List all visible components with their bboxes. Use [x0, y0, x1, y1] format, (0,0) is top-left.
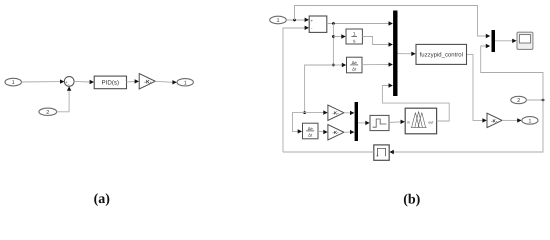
wire error reroute down-left branch (b): [305, 65, 334, 113]
gain2 -K- triangle (b): [328, 125, 344, 140]
arrowhead into outport 1 (b): [517, 118, 521, 122]
arrowhead into quantizer (b): [365, 121, 369, 125]
wire fuzzy sets output loop to mux1 input4 (b): [382, 86, 449, 122]
arrowhead into sum plus input (b): [305, 18, 309, 22]
svg-text:-K-: -K-: [332, 111, 339, 116]
arrowhead into gain1 (b): [323, 110, 327, 114]
node junction at In1 branch: [293, 19, 296, 22]
node junction error branch: [332, 22, 335, 25]
arrowhead into fuzzypid_control (b): [411, 52, 415, 56]
arrowhead into derivative lower (b): [298, 129, 302, 133]
arrowhead into integrator (b): [341, 34, 345, 38]
arrowhead into mux1 input2 (b): [389, 42, 393, 46]
derivative block lower de/dt (b): [303, 123, 319, 139]
arrowhead into derivative upper (b): [342, 63, 346, 67]
svg-text:2: 2: [46, 110, 49, 116]
node junction feedback net: [542, 99, 545, 102]
arrowhead into scope mux lower (b): [486, 44, 490, 48]
arrowhead into mux1 input1 (b): [389, 21, 393, 25]
inport oval 2 (a): [39, 108, 57, 116]
wire feedback into sum minus input (b): [283, 28, 305, 152]
arrowhead into lower mux in1 (b): [350, 111, 354, 115]
arrowhead into gain3 (b): [482, 118, 486, 122]
wire quantizer to fuzzy sets block (b): [389, 121, 401, 124]
wire error vertical branch (b): [332, 24, 334, 66]
inport oval 1 (b): [270, 16, 287, 24]
fuzzy membership in/out block (b): [405, 108, 436, 134]
wire lower mux to quantizer (b): [358, 122, 366, 124]
wire error line sum to mux1 first input (b): [327, 23, 389, 25]
derivative block upper de/dt (b): [347, 57, 363, 73]
gain1 -K- triangle (b): [328, 105, 344, 120]
svg-text:2: 2: [517, 98, 520, 104]
svg-text:Δe: Δe: [308, 126, 314, 131]
node junction to integrator: [332, 35, 335, 38]
integrator block 1/s (b): [346, 29, 362, 45]
scope block (b): [517, 32, 533, 49]
fuzzypid_control block (b): [416, 44, 467, 64]
svg-text:-K-: -K-: [491, 118, 498, 123]
sum block square (b): [309, 16, 327, 32]
inport oval 2 (b): [511, 96, 527, 104]
inport oval 1 (a): [5, 78, 21, 86]
arrowhead into sum (a): [60, 79, 64, 83]
wire derivative lower to gain2 (b): [318, 130, 324, 133]
svg-text:1: 1: [12, 80, 15, 86]
wire mux1 to fuzzypid_control (b): [398, 53, 413, 55]
svg-text:(a): (a): [94, 192, 111, 207]
arrowhead into mux1 input4 (b): [389, 83, 393, 87]
wire gain3 to outport 1 (b): [502, 119, 518, 121]
lower mux bar (b): [355, 102, 358, 141]
svg-text:-K-: -K-: [332, 130, 339, 135]
wire hold block back to sum (b): [283, 151, 374, 153]
svg-text:fuzzypid_control: fuzzypid_control: [420, 52, 463, 59]
node junction to derivative upper: [332, 64, 335, 67]
wire In1 to sum (a): [21, 81, 60, 83]
wire tee to derivative lower (b): [293, 113, 305, 132]
svg-text:1: 1: [184, 80, 187, 86]
wire integrator to mux1 input2 (b): [362, 37, 389, 45]
quantizer block (b): [370, 115, 389, 130]
wire In1 to sum (b): [286, 19, 305, 21]
wire reference top run to scope mux (b): [295, 6, 487, 37]
svg-text:Δe: Δe: [352, 60, 358, 65]
gain3 -K- triangle (b): [487, 113, 502, 127]
outport oval 1 (b): [522, 117, 538, 125]
arrowhead into gain2 (b): [323, 130, 327, 134]
wire fuzzypid_control output down to gain3 (b): [467, 54, 483, 120]
arrowhead into Out1 (a): [172, 80, 176, 84]
hold block pulse icon (b): [374, 145, 389, 160]
wire to integrator input (b): [333, 36, 342, 38]
arrowhead left into hold block (b): [389, 150, 393, 154]
arrowhead up into sum bottom (a): [67, 86, 71, 90]
wire to derivative upper input (b): [333, 64, 342, 66]
scope mux bar (b): [492, 30, 496, 52]
arrowhead into gain (a): [135, 79, 139, 83]
wire tee to gain1 input (b): [305, 112, 324, 114]
arrowhead into mux1 input3 (b): [389, 62, 393, 66]
PID(s) block (a): [94, 76, 126, 89]
wire derivative upper to mux1 input3 (b): [362, 64, 389, 66]
wire feedback net up to scope mux lower input (b): [481, 46, 543, 100]
svg-text:1: 1: [276, 18, 279, 24]
sum junction circle (a): [64, 77, 74, 88]
svg-text:1: 1: [528, 119, 531, 125]
svg-text:(b): (b): [403, 193, 420, 208]
arrowhead into fuzzy sets block (b): [401, 120, 405, 124]
node junction lower tee: [303, 111, 306, 114]
svg-text:PID(s): PID(s): [102, 80, 120, 87]
wire PID to gain (a): [127, 81, 136, 84]
wire gain2 to mux2 lower (b): [344, 131, 351, 133]
svg-text:-K-: -K-: [144, 79, 151, 85]
wire sum to PID (a): [74, 80, 90, 83]
arrowhead into scope mux top (b): [486, 34, 490, 38]
arrowhead into lower mux in2 (b): [350, 130, 354, 134]
mux1 main bar (b): [393, 11, 397, 97]
wire In2 up to sum bottom (a): [57, 90, 69, 112]
svg-text:in: in: [407, 121, 410, 125]
svg-text:out: out: [428, 121, 433, 125]
outport oval 1 (a): [177, 79, 193, 87]
wire scope mux to scope (b): [495, 40, 513, 42]
wire gain to Out1 (a): [155, 81, 173, 82]
arrowhead into sum minus input (b): [305, 26, 309, 30]
wire gain1 to mux2 lower (b): [344, 112, 351, 114]
wire inport2 to feedback net (b): [526, 99, 543, 101]
arrowhead into scope (b): [512, 39, 516, 43]
wire feedback net down to hold block (b): [393, 100, 543, 152]
arrowhead into PID (a): [90, 80, 94, 84]
gain -K- triangle (a): [139, 74, 155, 89]
